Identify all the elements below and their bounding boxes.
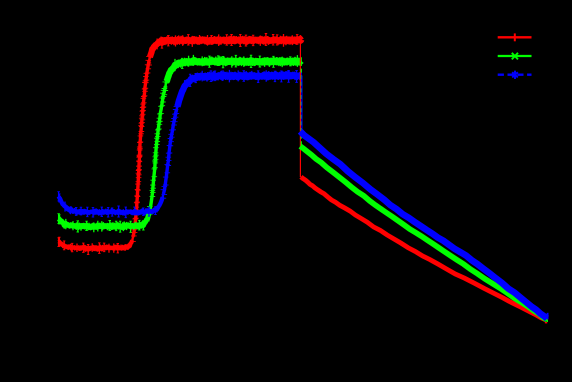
blue curve rise line	[163, 110, 176, 194]
green curve plateau band	[166, 60, 301, 81]
green curve error bar caps	[57, 55, 291, 232]
blue curve plateau band	[177, 75, 301, 107]
blue decay line	[300, 131, 547, 318]
legend blue asterisk marker	[512, 71, 518, 79]
red curve plateau band	[150, 39, 301, 57]
green end dot	[546, 320, 548, 323]
blue curve error bars	[59, 70, 302, 218]
red curve error bars	[59, 34, 302, 255]
blue curve error bar caps	[57, 71, 297, 218]
red curve low flat band	[59, 240, 133, 249]
green curve error bars	[59, 55, 302, 232]
blue curve center line	[59, 75, 302, 213]
legend blue dashed sample line	[498, 74, 532, 76]
red decay line	[301, 177, 546, 320]
red curve center line	[59, 39, 302, 250]
red curve rise line	[133, 61, 149, 237]
legend green sample line	[498, 55, 532, 57]
green curve center line	[59, 60, 302, 227]
blue curve low flat band	[59, 196, 163, 213]
green curve low flat band	[59, 214, 149, 228]
legend red plus marker	[514, 33, 516, 41]
legend green x marker	[512, 53, 518, 60]
red end dash	[545, 322, 547, 324]
blue vertical drop line	[301, 76, 303, 132]
blue end tick	[547, 313, 549, 320]
legend red sample line	[498, 36, 532, 38]
red vertical drop line	[299, 40, 301, 177]
red curve error bar caps	[57, 34, 298, 255]
green decay line	[300, 146, 547, 319]
green vertical drop line (dashed)	[300, 62, 302, 146]
green curve rise line	[150, 86, 166, 210]
